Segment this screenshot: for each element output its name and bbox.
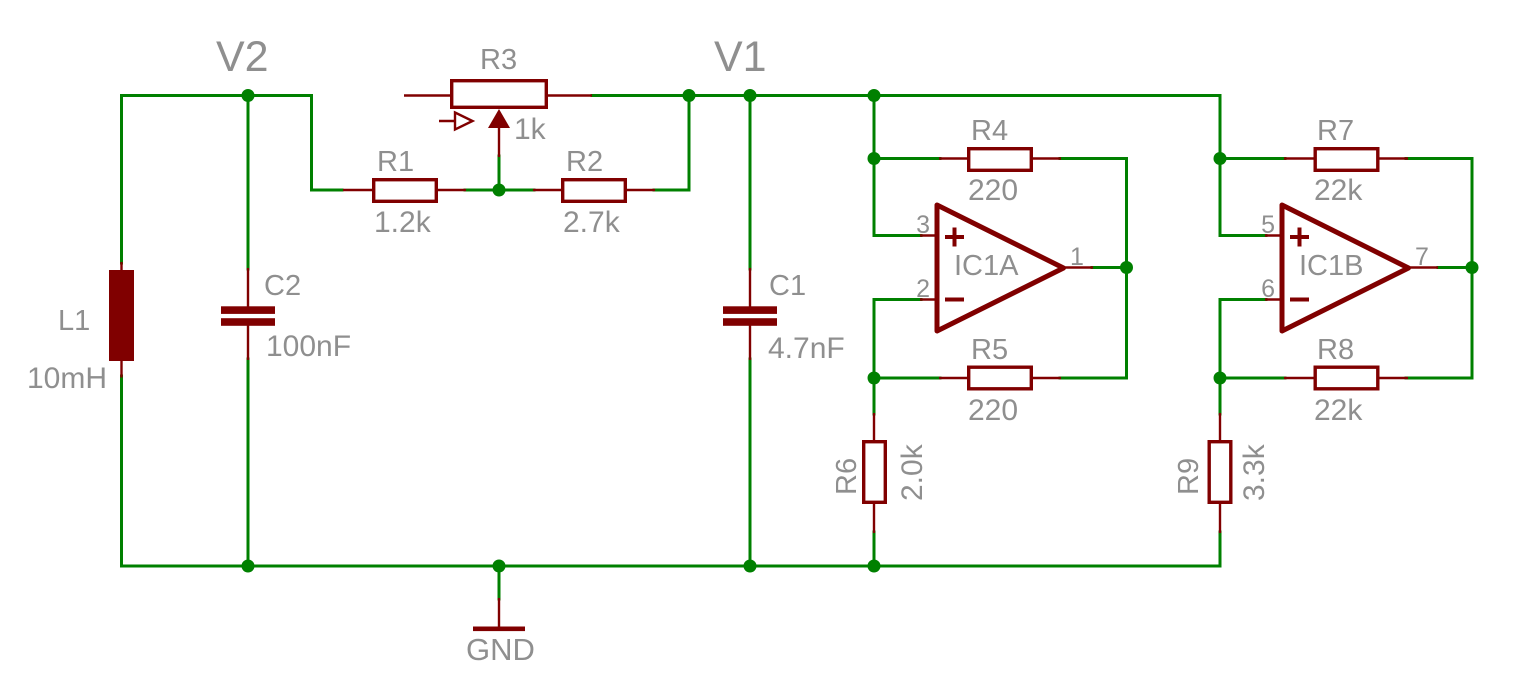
junction node V2 <box>242 89 255 102</box>
pin lead L1 bottom <box>120 360 122 378</box>
wire C1 column upper <box>749 96 752 270</box>
wire IC1A left column top (bus to pin 3 row) <box>874 96 921 236</box>
pin lead R1 right <box>436 189 466 191</box>
junction node R4 left <box>868 152 881 165</box>
svg-text:100nF: 100nF <box>266 330 351 363</box>
potentiometer R3 adjust arrow head <box>455 113 473 130</box>
svg-text:IC1A: IC1A <box>954 250 1019 282</box>
pin lead R6 top <box>873 413 875 442</box>
wire IC1B pin 6 to column to R8 node <box>1220 300 1266 379</box>
pin lead R7 right <box>1378 157 1408 159</box>
junction node C1 bottom <box>744 560 757 573</box>
junction node IC1B output <box>1466 261 1479 274</box>
resistor R9 body <box>1209 442 1231 503</box>
wire R3 wiper stem green part <box>498 156 501 190</box>
svg-text:GND: GND <box>466 632 535 667</box>
pin lead R7 left <box>1284 157 1315 159</box>
svg-text:C1: C1 <box>769 270 806 302</box>
svg-text:22k: 22k <box>1314 174 1363 207</box>
wire R5 right link to output column <box>1060 268 1127 379</box>
potentiometer R3 body <box>452 81 547 108</box>
pin lead R3 left <box>404 94 452 96</box>
inductor L1 body <box>109 270 134 361</box>
wire R9 top green part <box>1219 378 1222 414</box>
resistor R1 body <box>374 180 437 202</box>
wire GND stem green part <box>498 566 501 599</box>
junction node R1 R2 wiper <box>493 184 506 197</box>
wire C2 column lower <box>247 359 250 566</box>
svg-text:R6: R6 <box>831 458 863 495</box>
junction node IC1A output <box>1120 261 1133 274</box>
svg-text:R2: R2 <box>566 146 603 178</box>
svg-text:R4: R4 <box>971 115 1008 147</box>
op-amp IC1A plus sign <box>945 228 964 247</box>
resistor R5 body <box>969 367 1032 389</box>
pin lead C2 top <box>247 268 249 307</box>
svg-text:C2: C2 <box>264 270 301 302</box>
wire R8 left link <box>1220 377 1285 380</box>
wire R4 left link <box>874 157 940 160</box>
junction node R2 riser on V1 bus <box>683 89 696 102</box>
pin lead R8 right <box>1378 377 1408 379</box>
pin lead R2 left <box>533 189 563 191</box>
wire IC1B output link <box>1438 266 1472 269</box>
capacitor C2 plates <box>221 306 275 326</box>
svg-text:220: 220 <box>968 394 1018 427</box>
wire R6 bottom green part <box>873 532 876 566</box>
pin lead R3 wiper stem <box>498 127 500 157</box>
op-amp IC1B plus sign <box>1290 228 1309 247</box>
wire left column lower (L1 to bottom bus) <box>120 376 123 566</box>
svg-text:2.0k: 2.0k <box>896 443 929 501</box>
svg-text:6: 6 <box>1261 275 1275 303</box>
potentiometer R3 adjust arrow line <box>439 120 458 122</box>
wire R5 left link <box>874 377 940 380</box>
svg-text:R8: R8 <box>1317 334 1354 366</box>
junction node R7 left <box>1214 152 1227 165</box>
capacitor C1 plates <box>723 306 777 326</box>
pin lead R9 bottom <box>1219 502 1221 533</box>
svg-text:R9: R9 <box>1173 458 1205 495</box>
op-amp IC1A triangle <box>937 205 1064 331</box>
svg-text:220: 220 <box>968 174 1018 207</box>
pin lead IC1B output pin 7 <box>1409 266 1438 268</box>
wire R9 bottom green part <box>1219 532 1222 566</box>
svg-text:R7: R7 <box>1317 115 1354 147</box>
pin lead R3 right <box>546 94 592 96</box>
wire IC1A output link <box>1092 266 1127 269</box>
wire R8 right link to output column <box>1406 268 1472 379</box>
pin lead R1 left <box>343 189 374 191</box>
svg-text:10mH: 10mH <box>27 362 107 395</box>
wire R7 right link to output column <box>1406 159 1472 268</box>
junction node V1 <box>744 89 757 102</box>
junction node R6 bottom <box>868 560 881 573</box>
svg-text:22k: 22k <box>1314 394 1363 427</box>
potentiometer R3 wiper arrow <box>488 109 510 128</box>
wire R2 to riser <box>654 189 689 192</box>
svg-text:IC1B: IC1B <box>1299 250 1363 282</box>
junction node IC1A column on V1 bus <box>868 89 881 102</box>
svg-text:V2: V2 <box>216 33 269 81</box>
op-amp IC1A minus sign <box>945 298 964 302</box>
resistor R2 body <box>563 180 626 202</box>
resistor R8 body <box>1315 367 1378 389</box>
pin lead C2 bottom <box>247 325 249 360</box>
wire bottom bus GND net <box>122 565 1221 568</box>
pin lead R2 right <box>625 189 655 191</box>
svg-text:1k: 1k <box>514 113 547 146</box>
svg-text:3.3k: 3.3k <box>1238 443 1271 501</box>
svg-text:2.7k: 2.7k <box>563 206 621 239</box>
svg-text:2: 2 <box>916 275 930 303</box>
pin lead IC1A pin 3 <box>920 234 938 236</box>
svg-text:1: 1 <box>1070 243 1084 271</box>
svg-text:R5: R5 <box>971 334 1008 366</box>
resistor R4 body <box>969 149 1032 171</box>
wire R1 to node to R2 <box>465 189 534 192</box>
svg-text:4.7nF: 4.7nF <box>768 332 845 365</box>
resistor R6 body <box>864 442 886 503</box>
wire top bus V1 net (R3 right to IC1B column) <box>592 94 1220 97</box>
svg-text:V1: V1 <box>714 33 767 81</box>
pin lead R5 right <box>1031 377 1061 379</box>
pin lead R4 left <box>939 157 969 159</box>
wire R7 left link <box>1220 157 1285 160</box>
pin lead C1 bottom <box>749 325 751 360</box>
pin lead C1 top <box>749 268 751 307</box>
svg-text:1.2k: 1.2k <box>374 206 432 239</box>
junction node R5 left <box>868 372 881 385</box>
op-amp IC1B minus sign <box>1290 298 1309 302</box>
junction node R8 left <box>1214 372 1227 385</box>
svg-text:L1: L1 <box>58 305 90 337</box>
pin lead L1 top <box>120 262 122 271</box>
pin lead R5 left <box>939 377 969 379</box>
wire IC1B left column top (bus to pin 5 row) <box>1220 96 1266 236</box>
svg-text:R3: R3 <box>480 44 517 76</box>
pin lead IC1A pin 2 <box>920 298 938 300</box>
pin lead IC1A output pin 1 <box>1064 266 1093 268</box>
pin lead GND stem <box>498 598 500 629</box>
pin lead R8 left <box>1284 377 1315 379</box>
pin lead R6 bottom <box>873 502 875 533</box>
pin lead R9 top <box>1219 413 1221 442</box>
resistor R7 body <box>1315 149 1378 171</box>
svg-text:7: 7 <box>1415 243 1429 271</box>
junction node GND stem <box>493 560 506 573</box>
wire R6 top green part <box>873 378 876 414</box>
wire top bus V2 net (left corner to turn-down) <box>122 96 343 191</box>
pin lead IC1B pin 5 <box>1265 234 1283 236</box>
wire left column upper (V2 to L1) <box>120 96 123 264</box>
wire C1 column lower <box>749 359 752 566</box>
op-amp IC1B triangle <box>1282 205 1409 331</box>
svg-text:3: 3 <box>916 211 930 239</box>
ground symbol GND bar <box>473 627 525 632</box>
pin lead R4 right <box>1031 157 1061 159</box>
svg-text:R1: R1 <box>377 146 414 178</box>
wire R4 right link to output column <box>1060 159 1127 268</box>
wire riser R2 node to V1 bus <box>688 96 691 191</box>
svg-text:5: 5 <box>1261 211 1275 239</box>
wire IC1A pin 2 to column to R5 node <box>874 300 921 379</box>
junction node C2 bottom <box>242 560 255 573</box>
wire C2 column upper <box>247 96 250 270</box>
pin lead IC1B pin 6 <box>1265 298 1283 300</box>
